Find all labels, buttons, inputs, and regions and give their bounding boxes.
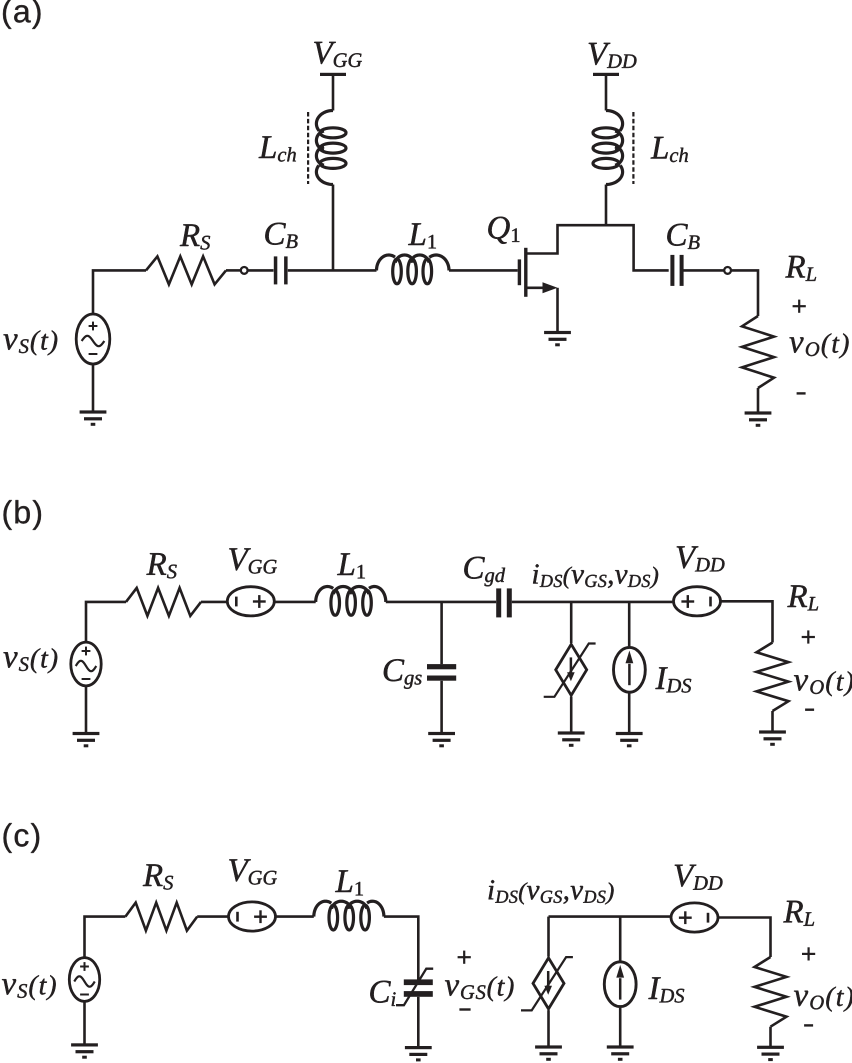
panel label (a) bbox=[3, 0, 41, 29]
label VDD (c) bbox=[675, 865, 723, 890]
wire Rs to VGG (c) bbox=[197, 915, 228, 918]
wire drain to Lch right (a) bbox=[605, 185, 608, 226]
label RL (b) bbox=[787, 585, 818, 610]
supply terminal VGG (a) bbox=[320, 73, 346, 76]
wire vs up to corner (c) bbox=[85, 917, 126, 958]
wire VDD to RL (c) bbox=[718, 918, 771, 958]
wire L1 to Ci (c) bbox=[384, 917, 418, 980]
label Lch right (a) bbox=[651, 137, 688, 162]
wire junction to Cgs (b) bbox=[440, 602, 443, 664]
ground below dep source (c) bbox=[535, 1045, 562, 1048]
DC source VGG (b) bbox=[227, 587, 274, 616]
Q1 source down wire (a) bbox=[556, 288, 559, 332]
wire RL to ground (a) bbox=[757, 388, 760, 413]
label vS(t) (a) bbox=[4, 330, 58, 355]
resistor RS (b) bbox=[126, 588, 201, 616]
label CB output (a) bbox=[667, 224, 699, 249]
wire Rs to node (a) bbox=[226, 269, 241, 272]
ground below Cgs (b) bbox=[428, 732, 455, 735]
Q1 drain lead (a) bbox=[526, 225, 669, 270]
minus vGS (c) bbox=[459, 1008, 470, 1010]
resistor RL (c) bbox=[755, 957, 787, 1027]
wire L1 to gate (a) bbox=[449, 269, 518, 272]
current source IDS (c) bbox=[604, 962, 636, 1007]
Q1 source lead (a) bbox=[526, 286, 552, 289]
label VGG (c) bbox=[229, 859, 277, 884]
open node after RS (a) bbox=[241, 267, 248, 274]
wire IDS to ground (b) bbox=[628, 693, 631, 733]
label vO(t) (b) bbox=[794, 671, 852, 696]
node junction VGG branch (a) bbox=[332, 185, 335, 271]
inductor L1 (b) bbox=[331, 591, 340, 616]
label RL (c) bbox=[783, 901, 814, 926]
label IDS (b) bbox=[655, 667, 691, 692]
core dashes Lch left (a) bbox=[307, 112, 309, 184]
panel label (b) bbox=[4, 500, 42, 530]
wire node to CB (a) bbox=[248, 269, 274, 272]
label vS(t) (c) bbox=[2, 975, 56, 1000]
wire Lch to VGG (a) bbox=[332, 75, 335, 111]
wire Ci to ground (c) bbox=[417, 997, 420, 1047]
ground below vs (a) bbox=[80, 410, 107, 413]
label vS(t) (b) bbox=[4, 648, 58, 673]
wire RL to ground (c) bbox=[769, 1027, 772, 1047]
ground below IDS (b) bbox=[616, 732, 643, 735]
wire Cgs to ground (b) bbox=[440, 681, 443, 733]
label RS (b) bbox=[146, 553, 176, 578]
wire to dependent source (c) bbox=[547, 917, 550, 957]
label VDD (b) bbox=[677, 546, 725, 571]
minus vO (c) bbox=[804, 1024, 813, 1026]
ground below IDS (c) bbox=[607, 1045, 634, 1048]
capacitor CB input (a) bbox=[274, 256, 278, 284]
resistor RL (b) bbox=[757, 643, 789, 712]
plus vGS (c) bbox=[458, 956, 471, 958]
ground below Ci (c) bbox=[405, 1046, 432, 1049]
wire to IDS source (b) bbox=[628, 602, 631, 646]
inductor L1 (c) bbox=[329, 905, 338, 930]
minus vO (a) bbox=[797, 392, 806, 394]
wire VGG to L1 (b) bbox=[274, 601, 315, 604]
wire node to RL (a) bbox=[731, 270, 758, 316]
plus vO (b) bbox=[802, 636, 815, 638]
label vGS(t) (c) bbox=[445, 976, 514, 1001]
label CB (a) bbox=[265, 223, 297, 248]
label VGG (a) bbox=[314, 42, 362, 67]
choke inductor Lch left (a) bbox=[320, 128, 346, 138]
wire L1 to Cgd (b) bbox=[386, 601, 496, 604]
wire IDS to ground (c) bbox=[619, 1008, 622, 1047]
wire VGG to L1 (c) bbox=[276, 915, 314, 918]
wire Lch right to VDD (a) bbox=[605, 75, 608, 111]
label Lch left (a) bbox=[259, 136, 296, 161]
plus vO (c) bbox=[802, 953, 815, 955]
dependent current source iDS (b) bbox=[556, 644, 587, 695]
choke inductor Lch right (a) bbox=[593, 128, 619, 138]
wire dep source to ground (c) bbox=[547, 1010, 550, 1046]
wire dep source to ground (b) bbox=[570, 697, 573, 733]
wire vs to ground (b) bbox=[85, 686, 88, 733]
label iDS(vGS,vDS) (b) bbox=[533, 564, 658, 588]
label L1 (c) bbox=[335, 870, 363, 895]
wire CB to L1 (a) bbox=[288, 269, 377, 272]
label Ci (c) bbox=[370, 981, 395, 1006]
plus vO (a) bbox=[793, 305, 806, 307]
ground below vs (b) bbox=[73, 732, 100, 735]
AC source vS(t) (c) bbox=[69, 958, 99, 1002]
wire vs up to corner (b) bbox=[86, 602, 126, 642]
capacitor Cgs (b) bbox=[427, 664, 456, 669]
wire CB2 to node (a) bbox=[684, 269, 725, 272]
label L1 (b) bbox=[337, 553, 365, 578]
DC source VGG (c) bbox=[229, 902, 276, 931]
Q1 source arrow (a) bbox=[543, 282, 558, 293]
open node output (a) bbox=[724, 267, 731, 274]
label VGG (b) bbox=[229, 548, 277, 573]
wire to IDS source (c) bbox=[619, 917, 622, 961]
capacitor Ci varactor (c) bbox=[404, 979, 433, 985]
dependent current source iDS (c) bbox=[533, 958, 564, 1009]
wire VDD to RL (b) bbox=[721, 601, 773, 642]
top rail (c) bbox=[549, 915, 671, 918]
label vO(t) (c) bbox=[794, 987, 852, 1012]
wire Cgd to VDD (b) bbox=[512, 601, 673, 604]
transistor Q1 gate bar (a) bbox=[518, 259, 521, 285]
wire vs to ground (a) bbox=[92, 364, 95, 412]
wire RL to ground (b) bbox=[771, 711, 774, 732]
resistor RS (c) bbox=[125, 903, 197, 931]
DC source VDD (c) bbox=[671, 903, 718, 932]
capacitor CB output (a) bbox=[670, 255, 674, 286]
wire vs to Rs (a) bbox=[93, 270, 146, 314]
wire to dependent source (b) bbox=[570, 602, 573, 643]
label iDS(vGS,vDS) (c) bbox=[489, 880, 614, 904]
label L1 (a) bbox=[408, 223, 436, 248]
current source IDS (b) bbox=[614, 647, 646, 692]
wire vs to ground (c) bbox=[83, 1001, 86, 1044]
label Q1 (a) bbox=[488, 217, 519, 244]
label IDS (c) bbox=[648, 977, 684, 1002]
ground below RL (c) bbox=[757, 1046, 784, 1049]
resistor RS (a) bbox=[146, 256, 226, 284]
label RS (c) bbox=[143, 864, 173, 889]
label Cgs (b) bbox=[384, 659, 422, 689]
Ci strike (c) bbox=[396, 969, 433, 1006]
resistor RL (a) bbox=[742, 316, 774, 388]
core dashes Lch right (a) bbox=[632, 112, 634, 184]
panel label (c) bbox=[4, 823, 40, 853]
ground below dep source (b) bbox=[558, 731, 585, 734]
label vO(t) (a) bbox=[790, 333, 849, 358]
wire Rs to VGG (b) bbox=[201, 601, 227, 604]
AC source vS(t) (b) bbox=[71, 642, 101, 686]
ground below RL (a) bbox=[745, 411, 772, 414]
label RS (a) bbox=[180, 224, 210, 249]
DC source VDD (b) bbox=[674, 587, 721, 616]
capacitor Cgd (b) bbox=[496, 588, 501, 617]
ground below vs (c) bbox=[71, 1043, 98, 1046]
label RL (a) bbox=[785, 256, 816, 281]
ground below Q1 (a) bbox=[544, 331, 571, 334]
transistor Q1 channel bar (a) bbox=[524, 248, 527, 297]
inductor L1 (a) bbox=[393, 259, 402, 284]
label Cgd (b) bbox=[464, 557, 505, 587]
minus vO (b) bbox=[805, 709, 814, 711]
AC source vS(t) (a) bbox=[76, 314, 110, 364]
label VDD (a) bbox=[589, 43, 637, 68]
ground below RL (b) bbox=[759, 730, 786, 733]
supply terminal VDD (a) bbox=[593, 73, 619, 76]
